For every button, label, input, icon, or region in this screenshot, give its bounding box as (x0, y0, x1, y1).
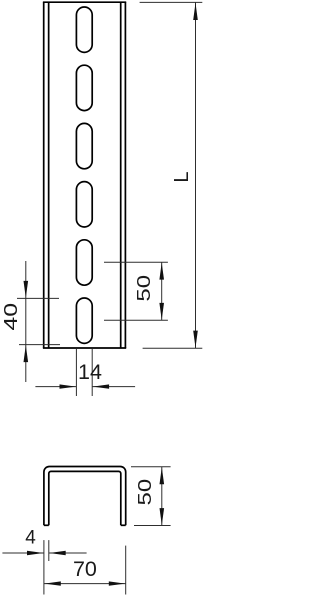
dimension 4 (wall thickness): right extension line (48, 540, 50, 561)
dimension L: top arrowhead (193, 3, 198, 20)
dimension 50 (slot pitch): upper arrowhead (159, 263, 164, 280)
slot 4 (76, 182, 92, 227)
dimension 50 (section height): top extension line (131, 466, 171, 468)
dimension 14 (slot width): right arrowhead (outside, pointing left) (93, 384, 109, 388)
dimension 4 (wall thickness): left dimension line segment (2, 552, 44, 554)
channel front view: outer right edge (124, 2, 126, 348)
slot 1 (76, 7, 92, 52)
dimension 50 (slot pitch): lower extension line (104, 319, 168, 321)
svg-text:4: 4 (25, 528, 36, 549)
dimension L: top extension line (140, 1, 203, 3)
svg-text:40: 40 (0, 303, 21, 331)
dimension 40 (slot length): lower arrowhead (outside, pointing up) (24, 345, 29, 362)
dimension 4 (wall thickness): right dimension line segment (49, 552, 87, 554)
channel front view: inner left bend line (48, 2, 50, 348)
dimension 14 (slot width): left arrowhead (outside, pointing right) (60, 384, 76, 388)
dimension 50 (section height): top arrowhead (160, 467, 165, 484)
dimension 4 (wall thickness): left extension line (shared with 70) (43, 540, 45, 594)
dimension 14 (slot width): right dimension line segment (92, 386, 135, 388)
dimension 40 (slot length): dimension line (25, 261, 27, 382)
svg-text:70: 70 (73, 557, 97, 581)
cross-section: right wall bottom cap (121, 524, 126, 526)
svg-text:50: 50 (134, 275, 155, 302)
dimension 50 (slot pitch): upper extension line (104, 261, 168, 263)
dimension 14 (slot width): left extension line (75, 349, 77, 396)
svg-text:L: L (171, 172, 193, 183)
svg-text:50: 50 (134, 479, 155, 506)
dimension 40 (slot length): upper arrowhead (outside, pointing down) (24, 281, 29, 298)
dimension 70 (section width): dimension line (44, 583, 126, 585)
slot 3 (76, 123, 92, 168)
slot 2 (76, 65, 92, 110)
dimension L: dimension line (195, 2, 197, 348)
dimension 14 (slot width): left dimension line segment (35, 386, 76, 388)
dimension 40 (slot length): upper extension line (17, 297, 59, 299)
channel front view: top edge (43, 1, 126, 3)
dimension 50 (section height): bottom extension line (134, 525, 171, 527)
svg-text:14: 14 (78, 360, 102, 384)
dimension 50 (slot pitch): dimension line (161, 262, 163, 320)
dimension 4 (wall thickness): right arrowhead (outside, pointing left) (49, 551, 65, 555)
channel front view: inner right bend line (120, 2, 122, 348)
dimension 70 (section width): right arrowhead (pointing right) (109, 581, 125, 585)
channel front view: outer left edge (43, 2, 45, 348)
cross-section: left wall bottom cap (44, 524, 49, 526)
slot 6 (76, 298, 92, 343)
dimension 50 (section height): dimension line (161, 467, 163, 526)
channel front view: bottom edge (43, 347, 126, 349)
dimension L: bottom extension line (143, 347, 203, 349)
dimension 70 (section width): right extension line (125, 546, 127, 595)
dimension L: bottom arrowhead (193, 331, 198, 348)
dimension 50 (section height): bottom arrowhead (160, 508, 165, 525)
dimension 14 (slot width): right extension line (91, 349, 93, 396)
dimension 50 (slot pitch): lower arrowhead (159, 303, 164, 320)
dimension 70 (section width): left arrowhead (pointing left) (44, 581, 60, 585)
cross-section: inner contour (49, 471, 121, 525)
cross-section: outer contour (inverted U) (44, 467, 126, 526)
slot 5 (76, 240, 92, 285)
dimension 40 (slot length): lower extension line (19, 344, 60, 346)
dimension 4 (wall thickness): left arrowhead (outside, pointing right) (27, 551, 43, 555)
